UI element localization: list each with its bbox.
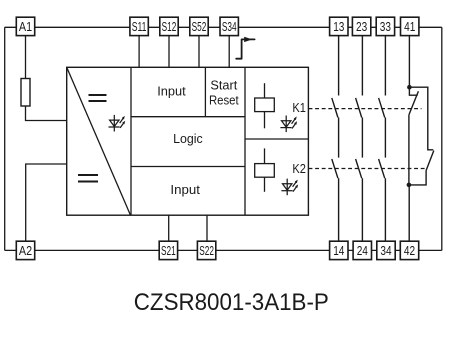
relay coil K1 xyxy=(255,83,275,128)
svg-text:S21: S21 xyxy=(161,243,176,258)
wire: right frame vertical xyxy=(441,27,443,250)
contact 41-42 (NC pair) xyxy=(409,36,434,241)
terminal 24 xyxy=(353,241,371,259)
terminal S22 xyxy=(197,241,215,259)
terminal S11 xyxy=(130,17,148,35)
mechanical link dashed line K1 xyxy=(309,108,422,110)
DC symbol top (=) xyxy=(89,95,107,101)
resistor (input resistor on A1 line) xyxy=(21,79,30,107)
main function block outline xyxy=(67,67,309,215)
wire: A1 to resistor xyxy=(25,36,27,79)
terminal 13 xyxy=(330,17,348,35)
wire: left frame vertical A1-A2 xyxy=(4,27,6,250)
power converter diagonal xyxy=(67,67,131,215)
svg-text:S11: S11 xyxy=(132,19,147,34)
terminal S52 xyxy=(190,17,208,35)
wire: 13 drop xyxy=(338,36,340,96)
wire: A2 to power block xyxy=(26,164,67,241)
terminal 42 xyxy=(400,241,418,259)
terminal A2 xyxy=(16,241,34,259)
svg-text:S52: S52 xyxy=(192,19,207,34)
DC symbol bottom (=) xyxy=(78,175,98,182)
divider Input/StartReset xyxy=(204,67,206,116)
divider Logic/Input xyxy=(131,166,245,168)
svg-text:Input: Input xyxy=(157,83,186,98)
contact blade 33-34 K1 row xyxy=(379,98,385,118)
wire: S34 drop xyxy=(228,36,230,68)
LED K1 xyxy=(280,116,297,133)
svg-text:S34: S34 xyxy=(222,19,237,34)
terminal S34 xyxy=(220,17,238,35)
contact blade 13-14 K1 row xyxy=(332,98,338,118)
wire: K2 branch return xyxy=(409,171,426,185)
junction node bottom (42) xyxy=(407,183,412,188)
NC contact K1 branch seat xyxy=(409,87,417,95)
wire: bottom bus y=250.4 xyxy=(5,249,442,251)
manual start/reset arrow symbol xyxy=(236,39,254,58)
svg-text:34: 34 xyxy=(380,243,391,258)
wire: 14 rise xyxy=(338,178,340,241)
wire: S22 drop xyxy=(206,215,208,241)
divider K1/K2 xyxy=(245,138,308,140)
LED K2 xyxy=(281,179,298,196)
NC contact blade K2 branch xyxy=(426,151,434,171)
svg-text:Logic: Logic xyxy=(173,131,203,146)
svg-text:S12: S12 xyxy=(162,19,177,34)
wire: resistor to power block xyxy=(26,106,67,121)
terminal 33 xyxy=(376,17,394,35)
svg-text:41: 41 xyxy=(404,19,415,34)
wire: top bus y=27.3 xyxy=(5,26,442,28)
contact blade 23-24 K2 row xyxy=(356,159,362,178)
terminal boxes, bottom row xyxy=(16,241,418,259)
contact 13-14 (NO, K1 row and K2 row in series) xyxy=(332,36,339,241)
svg-text:Start: Start xyxy=(210,78,237,93)
wire: 34 rise xyxy=(384,178,386,241)
svg-text:A2: A2 xyxy=(19,243,32,258)
terminal S21 xyxy=(159,241,177,259)
NC contact blade K1 branch xyxy=(409,91,419,115)
terminal labels top row xyxy=(19,19,415,34)
wire: right branch across and down xyxy=(409,87,433,150)
wire: S52 drop xyxy=(198,36,200,68)
junction node top (41) xyxy=(407,85,412,90)
contact blade 33-34 K2 row xyxy=(379,159,385,178)
svg-text:Input: Input xyxy=(170,182,200,197)
wire: 24 rise xyxy=(361,178,363,241)
wire: S12 drop xyxy=(168,36,170,68)
wire: S21 drop xyxy=(168,215,170,241)
svg-text:Reset: Reset xyxy=(209,92,239,107)
power section divider xyxy=(130,67,132,215)
svg-text:24: 24 xyxy=(357,243,368,258)
relay coil K2 xyxy=(255,148,275,191)
relay section left edge xyxy=(244,67,246,215)
mechanical link dashed line K2 xyxy=(309,168,427,170)
terminal 41 xyxy=(401,17,419,35)
svg-text:33: 33 xyxy=(380,19,391,34)
svg-text:14: 14 xyxy=(333,243,344,258)
svg-text:42: 42 xyxy=(404,243,415,258)
wire: S11 drop xyxy=(138,36,140,68)
terminal 34 xyxy=(377,241,395,259)
wire: 33-34 mid xyxy=(384,118,386,158)
wire: 23 drop xyxy=(361,36,363,96)
divider Input/Logic xyxy=(131,116,245,118)
terminal 14 xyxy=(330,241,348,259)
terminal A1 xyxy=(16,17,34,35)
LED power indicator xyxy=(109,115,126,132)
svg-text:K2: K2 xyxy=(292,161,306,176)
wire: 42 rise xyxy=(408,185,410,241)
svg-text:A1: A1 xyxy=(19,19,32,34)
svg-text:CZSR8001-3A1B-P: CZSR8001-3A1B-P xyxy=(134,289,329,316)
wire: 33 drop xyxy=(384,36,386,96)
contact blade 23-24 K1 row xyxy=(356,98,362,118)
svg-text:K1: K1 xyxy=(292,100,306,115)
svg-text:S22: S22 xyxy=(199,243,214,258)
terminal boxes, top row xyxy=(16,17,419,35)
contact 23-24 (NO) xyxy=(356,36,363,241)
wire: 13-14 mid xyxy=(338,118,340,158)
wire: 23-24 mid xyxy=(361,118,363,158)
svg-text:23: 23 xyxy=(356,19,367,34)
svg-text:13: 13 xyxy=(333,19,344,34)
terminal 23 xyxy=(352,17,370,35)
contact blade 13-14 K2 row xyxy=(332,159,338,178)
terminal labels bottom row xyxy=(19,243,415,258)
contact 33-34 (NO) xyxy=(379,36,386,241)
wire: K1 branch down xyxy=(408,115,410,185)
wire: 41 drop xyxy=(408,36,410,87)
terminal S12 xyxy=(160,17,178,35)
